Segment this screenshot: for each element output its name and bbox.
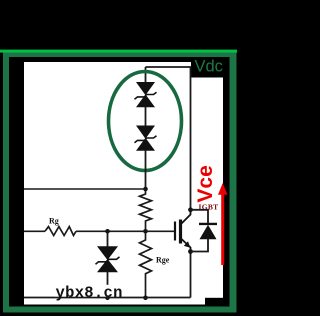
TVS diode D1 (bidirectional, in highlight ellipse) bbox=[135, 82, 157, 107]
wire D3 to emitter rail bbox=[107, 272, 109, 298]
node B junction dot (clamp tap) bbox=[105, 229, 110, 234]
svg-text:ybx8.cn: ybx8.cn bbox=[56, 284, 123, 302]
TVS diode D3 (gate clamp, bidirectional) bbox=[96, 246, 120, 272]
wire emitter rail bbox=[24, 297, 191, 299]
wire node B down to TVS D3 bbox=[107, 231, 109, 247]
wire B left segment: input terminal to Rg bbox=[24, 230, 45, 232]
node G junction dot (gate node) bbox=[143, 229, 148, 234]
junction dot D3/rail bbox=[105, 296, 110, 301]
wire A: left terminal to node A bbox=[24, 188, 146, 190]
highlight ellipse (green annotation) bbox=[109, 72, 182, 171]
Vce arrow (red) bbox=[218, 183, 227, 265]
resistor R1 (unlabeled, between node A and gate node) bbox=[140, 189, 152, 231]
resistor Rge (gate-emitter) bbox=[140, 231, 152, 297]
svg-text:Vdc: Vdc bbox=[195, 58, 223, 76]
resistor Rg bbox=[45, 227, 76, 236]
wire collector to diode D4 bbox=[191, 210, 209, 224]
node A junction dot bbox=[143, 187, 148, 192]
wire between D1 and D2 bbox=[145, 107, 147, 126]
svg-text:Rge: Rge bbox=[156, 255, 170, 264]
wire diode D4 to emitter bbox=[191, 239, 209, 252]
svg-text:Vce: Vce bbox=[194, 165, 217, 202]
junction dot Rge/rail bbox=[143, 296, 148, 301]
collector node junction dot bbox=[188, 207, 193, 212]
wire top bus from TVS chain to collector branch bbox=[146, 66, 191, 68]
diode D4 (freewheeling, antiparallel) bbox=[199, 224, 217, 239]
wire D2 to node A bbox=[145, 151, 147, 190]
wire stub top bus to TVS D1 bbox=[145, 67, 147, 83]
emitter node junction dot bbox=[188, 249, 193, 254]
transistor Q1 IGBT bbox=[175, 208, 191, 252]
wire B right segment: Rg to IGBT gate bbox=[76, 230, 175, 232]
watermark background bbox=[55, 285, 122, 297]
wire emitter branch down to rail bbox=[190, 252, 192, 298]
wire collector branch vertical bbox=[190, 66, 192, 210]
svg-text:Rg: Rg bbox=[49, 216, 59, 225]
TVS diode D2 (bidirectional, in highlight ellipse) bbox=[135, 126, 157, 151]
